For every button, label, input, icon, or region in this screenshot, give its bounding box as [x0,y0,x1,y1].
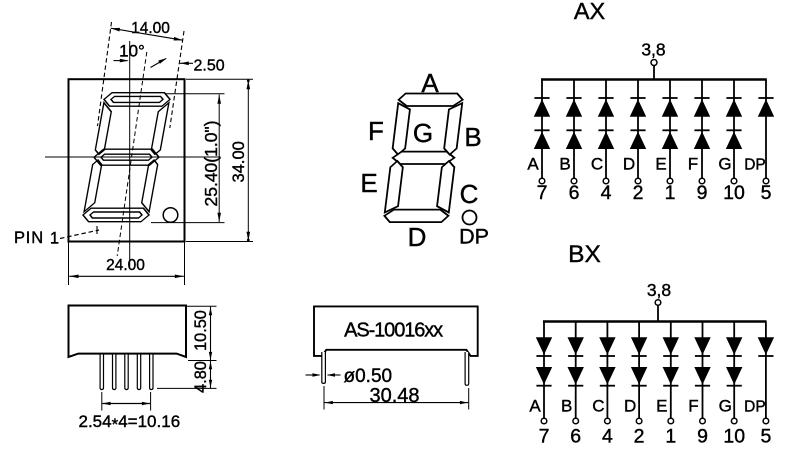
BX branch B wire [575,322,577,419]
svg-text:PIN: PIN [14,229,44,247]
AX branch E wire [669,80,671,179]
segment G [392,152,455,164]
svg-text:F: F [688,397,698,416]
svg-text:10.50: 10.50 [192,310,210,351]
BX terminal C [605,418,611,424]
AX branch F wire [701,80,703,179]
BX terminal G [731,418,737,424]
BX branch F wire [702,322,704,419]
svg-text:D: D [408,222,427,252]
segment E [84,160,102,212]
AX diode C2 [598,129,613,131]
BX common stem wire [657,305,659,322]
svg-text:6: 6 [570,426,581,448]
svg-text:F: F [688,155,698,174]
AX bus wire [541,78,767,80]
svg-text:24.00: 24.00 [106,257,145,274]
dim 4.80 extension line [157,387,217,389]
dim 30.48 extension lines [323,386,325,410]
BX diode G1 [726,337,742,355]
dim 24.00 extension lines [68,242,70,285]
side view pin 4 [137,355,140,390]
svg-text:E: E [655,155,666,174]
svg-text:7: 7 [537,182,548,204]
svg-text:G: G [719,397,732,416]
dim 10.50 line [210,307,212,360]
svg-text:4: 4 [602,426,613,448]
segment A [103,93,171,107]
decimal point (segment diagram) [463,211,477,225]
AX branch B wire [573,80,575,179]
segment D [82,208,150,222]
svg-text:DP: DP [744,399,766,416]
segment D [384,210,450,223]
svg-text:B: B [561,397,572,416]
BX diode G2 [726,367,742,385]
BX branch D wire [638,322,640,419]
segment C [436,161,455,212]
angle arrow right [151,59,167,68]
slanted centerline (10 deg) [117,52,147,256]
dim 34.00 line [247,80,249,241]
svg-text:C: C [460,179,479,209]
AX terminal D [635,178,641,184]
vertical centerline [129,41,131,268]
segment A [398,94,464,107]
svg-text:34.00: 34.00 [230,141,248,182]
svg-text:ø0.50: ø0.50 [344,366,393,387]
svg-text:10: 10 [723,426,745,448]
svg-text:2: 2 [634,426,645,448]
AX branch C wire [605,80,607,179]
angle arrow left [114,60,128,62]
svg-text:AX: AX [574,0,606,24]
svg-text:5: 5 [761,182,772,204]
svg-text:9: 9 [697,182,708,204]
svg-text:2.54*4=10.16: 2.54*4=10.16 [79,412,181,434]
segment Gi [100,154,152,160]
segment E [385,161,404,212]
AX diode F2 [694,129,709,131]
side view pin 3 [125,355,128,390]
AX diode G1 [726,97,741,99]
svg-text:3,8: 3,8 [647,280,671,300]
7-segment digit (segment diagram) [384,94,464,223]
svg-text:BX: BX [568,241,601,268]
AX terminal F [699,178,705,184]
svg-text:A: A [421,68,439,98]
AX diode E1 [662,97,677,99]
BX branch A wire [543,322,545,419]
BX diode F1 [694,337,710,355]
dim 4.80 line [210,361,212,388]
svg-text:E: E [656,397,667,416]
svg-text:D: D [623,155,635,174]
BX diode B2 [568,367,584,385]
svg-text:14.00: 14.00 [131,20,170,37]
PIN 1 leader line [60,230,99,239]
AX diode D2 [630,129,645,131]
horizontal centerline [45,156,221,158]
svg-text:4.80: 4.80 [192,361,210,393]
svg-text:B: B [559,155,570,174]
AX terminal DP [763,178,769,184]
BX terminal F [700,418,706,424]
AX branch G wire [733,80,735,179]
dim 2.50 arrow [180,62,193,64]
BX diode C1 [599,337,615,355]
BX diode DP1 [758,337,774,355]
BX terminal A [541,418,547,424]
front view right pin [465,352,469,385]
segment Di [89,212,142,218]
7-segment digit (package view) [82,93,171,222]
AX diode DP1 [758,97,773,99]
side view pin 2 [113,355,116,390]
AX diode E2 [662,129,677,131]
segment Ai [110,96,163,102]
AX terminal A [539,178,545,184]
segment B [443,103,462,154]
dim 30.48 line [325,402,469,404]
decimal point (package view) [163,208,178,223]
dim 14.00 extension lines [98,22,112,126]
svg-text:4: 4 [601,182,612,204]
svg-text:1: 1 [50,230,59,248]
AX diode F1 [694,97,709,99]
svg-text:DP: DP [459,225,489,249]
dim 14.00 line [111,28,183,40]
BX branch C wire [606,322,608,419]
svg-text:D: D [624,397,636,416]
BX diode A2 [536,367,552,385]
svg-text:E: E [360,168,377,198]
svg-text:2.50: 2.50 [194,57,225,74]
front view body [314,306,478,356]
AX diode D1 [630,97,645,99]
AX diode A1 [534,97,549,99]
dim 24.00 line [69,275,184,277]
svg-text:DP: DP [744,157,766,174]
dim 0.50 arrows [306,374,320,376]
BX diode E2 [663,367,679,385]
dim 25.40 line [218,95,220,223]
svg-text:B: B [464,122,481,152]
svg-text:G: G [718,155,731,174]
AX branch D wire [637,80,639,179]
AX terminal E [667,178,673,184]
AX diode B2 [566,129,581,131]
segment F [95,103,113,155]
side view pin 1 [100,355,103,390]
svg-text:G: G [413,118,433,148]
svg-text:A: A [529,397,541,416]
BX branch G wire [733,322,735,419]
svg-text:C: C [591,155,603,174]
side view pin 5 [150,355,153,390]
segment G [93,149,161,165]
AX branch DP wire [765,80,767,179]
BX diode F2 [694,367,710,385]
BX diode B1 [568,337,584,355]
dim 25.40 extension lines [165,93,225,95]
AX terminal C [603,178,609,184]
dim 2.54 extension lines [101,392,103,411]
side view body [69,306,187,358]
BX diode D2 [631,367,647,385]
svg-text:7: 7 [539,426,550,448]
segment C [140,160,158,212]
front view left pin [322,352,326,383]
dim 10.50 extension lines [187,305,217,307]
dim 2.54 line [102,403,150,405]
AX terminal B [571,178,577,184]
svg-text:5: 5 [760,426,771,448]
AX diode C1 [598,97,613,99]
BX branch DP wire [765,322,767,419]
BX terminal E [668,418,674,424]
svg-text:30.48: 30.48 [369,385,419,407]
BX diode A1 [536,337,552,355]
svg-text:F: F [368,116,384,146]
BX bus wire [543,320,767,322]
BX terminal DP [763,418,769,424]
svg-text:10°: 10° [119,42,145,61]
BX branch E wire [670,322,672,419]
svg-text:AS-10016xx: AS-10016xx [344,320,443,342]
svg-text:1: 1 [665,182,676,204]
svg-text:2: 2 [633,182,644,204]
AX diode G2 [726,129,741,131]
svg-text:10: 10 [723,182,745,204]
AX terminal G [731,178,737,184]
BX diode C2 [599,367,615,385]
svg-text:A: A [527,155,539,174]
dim 34.00 extension lines [186,78,253,80]
AX diode B1 [566,97,581,99]
segment B [151,103,169,155]
svg-text:9: 9 [697,426,708,448]
svg-text:1: 1 [665,426,676,448]
BX diode D1 [631,337,647,355]
svg-text:6: 6 [569,182,580,204]
svg-text:C: C [592,397,604,416]
svg-text:25.40(1.0"): 25.40(1.0") [201,121,221,207]
AX diode A2 [534,129,549,131]
svg-text:3,8: 3,8 [641,40,665,60]
AX common stem wire [653,66,655,81]
BX terminal D [636,418,642,424]
package front outline [69,79,185,241]
AX branch A wire [541,80,543,179]
BX terminal B [573,418,579,424]
segment F [392,103,411,154]
BX diode E1 [663,337,679,355]
